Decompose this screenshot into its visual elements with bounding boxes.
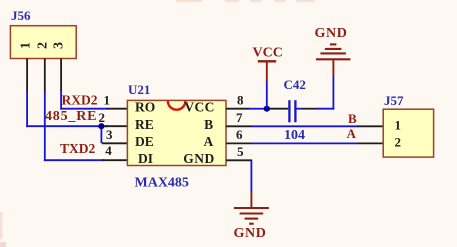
capacitor C42 right lead: [302, 108, 317, 110]
J56 pin number 2 (rotated): [36, 42, 51, 49]
U21 pin 4 lead: [102, 159, 128, 161]
J57 pin 2 lead: [358, 142, 384, 144]
capacitor C42 label: [284, 77, 306, 92]
pin number 4: [105, 143, 112, 158]
net label TXD2: [60, 141, 96, 156]
net label RXD2: [62, 93, 98, 108]
svg-text:U21: U21: [128, 82, 150, 97]
U21 pin 2 lead: [105, 125, 128, 127]
wire capacitor to GND stem: [296, 108, 334, 110]
svg-text:104: 104: [284, 128, 305, 143]
svg-text:A: A: [347, 126, 357, 141]
pin number 7: [236, 110, 243, 125]
pin name VCC: [184, 99, 214, 114]
junction dot VCC: [264, 106, 270, 112]
svg-text:DE: DE: [135, 134, 154, 149]
op-amp U21 designator label: [128, 82, 150, 97]
pin number 6: [236, 127, 243, 142]
pin name RO: [135, 99, 155, 114]
svg-text:3: 3: [51, 42, 66, 49]
svg-text:TXD2: TXD2: [60, 141, 96, 156]
wire TXD2 horizontal to U21 pin 4: [44, 159, 104, 161]
svg-text:A: A: [203, 134, 213, 149]
pin name GND: [183, 151, 215, 166]
svg-text:GND: GND: [315, 26, 348, 41]
pin number 2: [99, 110, 106, 125]
pin name B: [204, 117, 213, 132]
IC notch red arc: [168, 101, 186, 110]
connector J56 body: [10, 26, 76, 59]
pin number 1: [104, 93, 111, 108]
svg-text:GND: GND: [183, 151, 215, 166]
svg-text:1: 1: [19, 42, 34, 49]
svg-text:8: 8: [237, 93, 244, 108]
svg-text:2: 2: [36, 42, 51, 49]
svg-text:RE: RE: [135, 117, 154, 132]
junction dot RE/DE: [98, 123, 104, 129]
svg-text:5: 5: [237, 144, 244, 159]
svg-text:7: 7: [236, 110, 243, 125]
wire B net to J57 pin 1: [252, 125, 358, 127]
wire RXD2 horizontal to U21 pin 1: [60, 108, 108, 110]
capacitor C42 left lead: [269, 108, 288, 110]
svg-text:1: 1: [104, 93, 111, 108]
connector J56 designator label: [11, 8, 31, 23]
net label A: [347, 126, 357, 141]
part value label MAX485: [135, 176, 189, 191]
ground symbol top right: [316, 44, 351, 76]
capacitor value 104: [284, 128, 305, 143]
U21 pin 6 lead: [226, 142, 252, 144]
J56 pin number 3 (rotated): [51, 42, 66, 49]
power label VCC: [253, 46, 283, 61]
U21 pin 8 lead: [226, 108, 250, 110]
IC U21 MAX485 body: [127, 100, 226, 165]
J57 pin number 2: [395, 134, 402, 149]
wire J56.1 down: [26, 91, 28, 127]
svg-text:B: B: [204, 117, 213, 132]
edge artifact top: [176, 0, 315, 2]
power label GND bottom: [234, 226, 267, 241]
pin name A: [203, 134, 213, 149]
svg-text:485_RE: 485_RE: [45, 109, 97, 124]
svg-text:B: B: [348, 111, 357, 126]
svg-text:MAX485: MAX485: [135, 176, 189, 191]
J56 pin 3 lead: [60, 59, 62, 92]
wire GND stem vertical: [332, 75, 334, 109]
power symbol VCC bar: [258, 61, 276, 81]
U21 pin 1 lead: [107, 108, 128, 110]
svg-text:GND: GND: [234, 226, 267, 241]
J56 pin number 1 (rotated): [19, 42, 34, 49]
wire A net to J57 pin 2: [252, 142, 358, 144]
pin name RE: [135, 117, 154, 132]
wire J56.3 down: [60, 91, 62, 110]
J56 pin 2 lead: [44, 59, 46, 92]
pin number 3: [106, 127, 113, 142]
edge artifact left: [0, 212, 3, 239]
svg-text:VCC: VCC: [184, 99, 214, 114]
connector J57 designator label: [384, 93, 404, 108]
svg-text:C42: C42: [284, 77, 306, 92]
ground symbol bottom: [234, 191, 269, 223]
wire J56.2 down: [44, 91, 46, 161]
pin name DE: [135, 134, 154, 149]
J56 pin 1 lead: [26, 59, 28, 92]
svg-text:RXD2: RXD2: [62, 93, 98, 108]
svg-text:VCC: VCC: [253, 46, 283, 61]
U21 pin 7 lead: [226, 125, 252, 127]
capacitor C42 plates: [289, 100, 295, 122]
svg-text:3: 3: [106, 127, 113, 142]
J57 pin 1 lead: [358, 125, 384, 127]
svg-text:2: 2: [99, 110, 106, 125]
svg-text:2: 2: [395, 134, 402, 149]
svg-text:6: 6: [236, 127, 243, 142]
pin number 8: [237, 93, 244, 108]
U21 pin 3 lead: [102, 142, 128, 144]
svg-text:J56: J56: [11, 8, 31, 23]
wire pin5 to ground: [250, 160, 252, 192]
wire pin8 to VCC junction: [249, 108, 265, 110]
net label B: [348, 111, 357, 126]
wire VCC stem down: [266, 81, 268, 109]
net label 485_RE: [45, 109, 97, 124]
pin name DI: [138, 151, 153, 166]
svg-text:DI: DI: [138, 151, 153, 166]
connector J57 body: [383, 109, 433, 157]
wire stub RE to DE: [100, 126, 102, 143]
power label GND top: [315, 26, 348, 41]
J57 pin number 1: [395, 117, 402, 132]
pin number 5: [237, 144, 244, 159]
svg-text:RO: RO: [135, 99, 155, 114]
svg-text:1: 1: [395, 117, 402, 132]
svg-text:J57: J57: [384, 93, 404, 108]
wire 485_RE horizontal to U21 pin 2: [26, 125, 108, 127]
svg-text:4: 4: [105, 143, 112, 158]
edge artifact bottom left corner: [0, 242, 6, 247]
U21 pin 5 lead: [226, 159, 252, 161]
